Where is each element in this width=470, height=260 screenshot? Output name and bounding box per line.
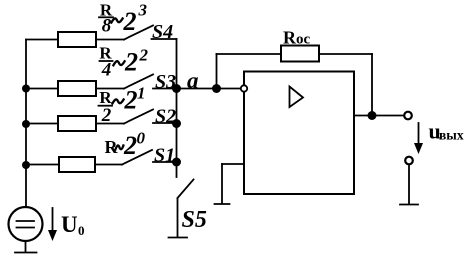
svg-text:3: 3	[138, 0, 148, 19]
junction dot left bus row2	[22, 85, 30, 93]
ground (source U0)	[15, 241, 37, 253]
svg-text:вых: вых	[439, 128, 464, 143]
fraction bar R/8	[99, 16, 113, 18]
ground (non-inverting input)	[215, 203, 230, 205]
svg-text:2: 2	[139, 46, 149, 65]
junction dot S2 / bus row3	[172, 119, 181, 128]
arrow u_vyh	[414, 123, 423, 154]
fraction bar R/4	[100, 60, 113, 62]
label R/8 ~ 2^3	[100, 0, 148, 36]
label R ~ 2^0	[105, 129, 146, 161]
resistor R/8	[58, 32, 96, 47]
junction dot S1 / bus row4	[172, 158, 181, 167]
svg-text:S1: S1	[154, 145, 175, 167]
svg-text:2: 2	[123, 7, 137, 36]
switch S3	[124, 75, 177, 89]
svg-text:2: 2	[123, 131, 137, 160]
op-amp triangle symbol	[290, 87, 304, 108]
wire: bus row2 to row3	[176, 89, 178, 124]
arrow U0	[48, 208, 57, 241]
terminal bar S5	[169, 237, 188, 239]
label u_vyh	[429, 119, 464, 144]
wire: feedback riser from node a	[216, 54, 218, 89]
junction dot S3 / bus row2	[172, 84, 181, 93]
op-amp U1 body	[244, 72, 354, 195]
svg-text:S5: S5	[182, 207, 207, 233]
wire: row2 left (bus to R/4)	[26, 88, 58, 90]
wire: bus row4 down to S5	[176, 162, 178, 177]
wire: feedback drop to output	[371, 54, 373, 116]
output terminal (top)	[404, 112, 412, 120]
op-amp inverting input circle	[241, 85, 247, 91]
svg-text:a: a	[187, 68, 199, 93]
voltage source U0	[9, 207, 43, 241]
wire: bus row3 to row4	[176, 124, 178, 163]
switch S2	[124, 110, 177, 124]
junction dot left bus row3	[22, 120, 30, 128]
wire: node a horizontal to op-amp input	[177, 88, 241, 90]
wire: row2 right (R/4 to S3)	[96, 88, 124, 90]
junction dot output/feedback	[368, 111, 377, 120]
wire: non-inverting input to ground	[222, 164, 244, 203]
ground (output)	[400, 204, 418, 206]
wire: bottom terminal to ground	[408, 165, 410, 204]
switch S1	[122, 150, 177, 165]
resistor Roc	[281, 46, 319, 62]
label Roc	[283, 28, 311, 48]
wire: row3 right (R/2 to S2)	[96, 123, 124, 125]
switch S4	[124, 26, 177, 40]
fraction bar R/2	[99, 105, 113, 107]
resistor R/4	[58, 81, 96, 96]
node a junction dot	[212, 84, 221, 93]
wire: feedback top right segment	[319, 53, 372, 55]
wire: row4 right (R to S1)	[95, 164, 122, 166]
svg-text:S4: S4	[152, 21, 173, 43]
wire: row1 left (bus to R/8)	[26, 39, 58, 41]
wire: output to terminal	[354, 115, 404, 117]
resistor R	[59, 157, 95, 172]
label U0	[61, 212, 85, 238]
svg-text:U: U	[61, 212, 78, 237]
svg-text:0: 0	[137, 129, 146, 148]
svg-text:2: 2	[101, 105, 112, 126]
output terminal (bottom)	[405, 157, 413, 165]
wire: row3 left (bus to R/2)	[26, 123, 58, 125]
switch S5	[178, 180, 194, 237]
resistor R/2	[58, 116, 96, 131]
svg-text:oc: oc	[296, 32, 311, 48]
wire: bus S4 contact down to node row2	[176, 39, 178, 89]
wire: left bus vertical	[25, 40, 27, 208]
svg-text:2: 2	[124, 48, 138, 77]
svg-text:2: 2	[124, 86, 138, 115]
wire: feedback top left segment	[217, 53, 282, 55]
svg-text:R: R	[283, 28, 297, 48]
junction dot left bus row4	[22, 161, 30, 169]
svg-text:0: 0	[78, 223, 85, 238]
label R/2 ~ 2^1	[99, 84, 145, 127]
label R/4 ~ 2^2	[99, 44, 148, 81]
wire: row4 left (bus to R)	[26, 164, 59, 166]
svg-text:1: 1	[137, 84, 146, 103]
svg-text:8: 8	[102, 16, 112, 37]
svg-text:4: 4	[101, 60, 112, 81]
wire: row1 right (R/8 to S4)	[96, 39, 124, 41]
